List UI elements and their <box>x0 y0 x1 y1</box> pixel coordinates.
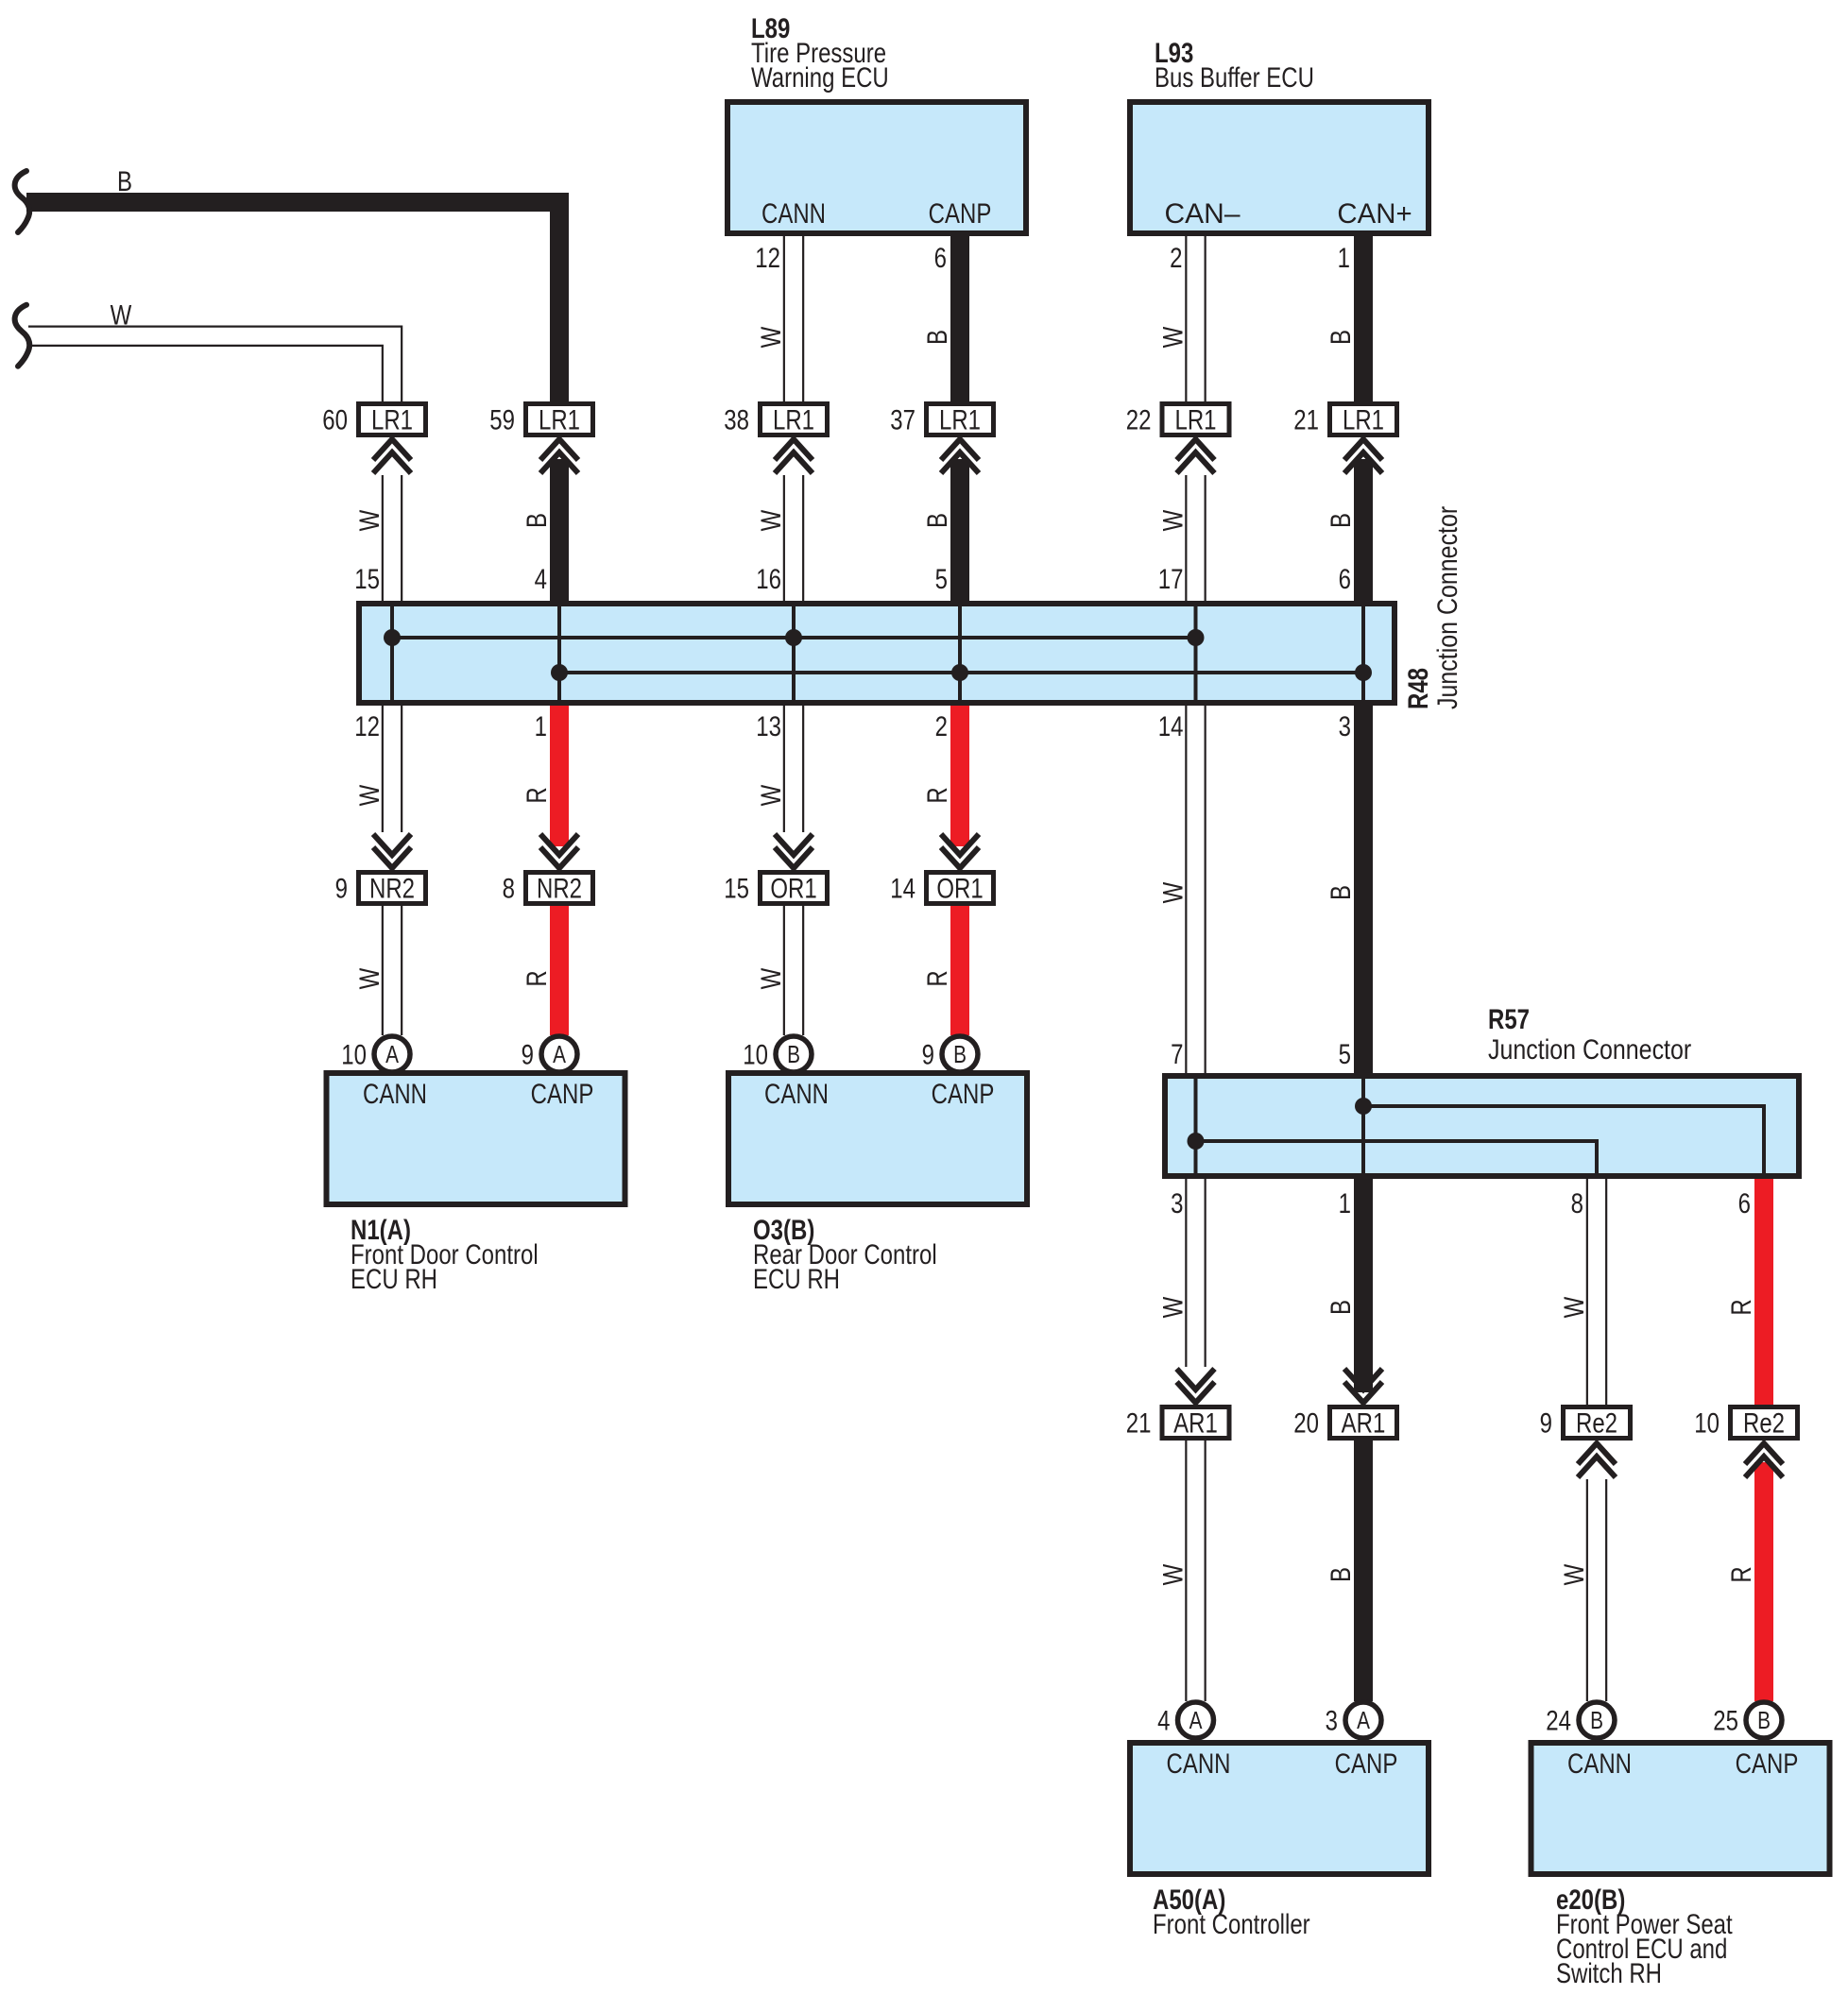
wire W horizontal pair with corner down to LR1 pin 60 <box>28 327 402 402</box>
svg-text:A: A <box>1357 1707 1370 1734</box>
svg-text:Junction Connector: Junction Connector <box>1430 506 1463 709</box>
svg-text:AR1: AR1 <box>1173 1407 1218 1439</box>
wire B from LR1 to R48 at x=592 <box>550 459 569 605</box>
wire W from OR1 15 to O3 pin 10 <box>783 906 785 1035</box>
svg-text:B: B <box>1324 330 1356 345</box>
wire B from L93 pin 1 to LR1 21 <box>1354 233 1373 402</box>
svg-text:B: B <box>787 1041 800 1068</box>
svg-text:10: 10 <box>743 1038 768 1070</box>
svg-text:W: W <box>1156 326 1189 348</box>
svg-text:21: 21 <box>1293 403 1319 435</box>
wire R from OR1 14 to O3 pin 9 <box>950 906 969 1035</box>
chevron arrows below LR1 60 <box>373 439 411 473</box>
wire B from R48 pin 3 to R57 pin 5 <box>1354 706 1373 1079</box>
junction connector R48 box <box>359 604 1395 703</box>
svg-text:A: A <box>385 1041 399 1068</box>
svg-text:B: B <box>520 513 552 528</box>
svg-text:CANN: CANN <box>363 1077 427 1109</box>
svg-text:37: 37 <box>890 403 915 435</box>
chevron arrows below LR1 37 <box>941 439 979 473</box>
wire B from R57 pin 1 to AR1 20 <box>1354 1179 1373 1392</box>
svg-text:21: 21 <box>1126 1407 1152 1439</box>
svg-text:8: 8 <box>503 872 515 904</box>
svg-text:CAN–: CAN– <box>1165 196 1241 229</box>
svg-text:W: W <box>1557 1563 1589 1585</box>
wire B from AR1 20 to A50 pin 3 <box>1354 1441 1373 1701</box>
svg-text:LR1: LR1 <box>939 403 981 435</box>
svg-text:5: 5 <box>935 562 948 594</box>
svg-text:12: 12 <box>755 241 780 273</box>
svg-text:1: 1 <box>1338 241 1350 273</box>
break symbol on wire W <box>15 305 30 367</box>
ECU N1 Front Door Control ECU RH box <box>327 1073 625 1204</box>
svg-text:R: R <box>920 970 952 986</box>
svg-text:R: R <box>920 787 952 803</box>
svg-text:13: 13 <box>756 709 781 742</box>
svg-text:B: B <box>920 513 952 528</box>
R48 internal pin-through line x=840 <box>792 606 796 700</box>
wire W from R48 pin 14 to R57 pin 7 <box>1185 704 1187 1075</box>
svg-text:15: 15 <box>724 872 749 904</box>
junction dot R48 CANP x=592 <box>551 664 568 681</box>
pin circle B pin 10 of O3 <box>776 1036 812 1072</box>
wire W from LR1 to R48 at x=415 <box>382 475 384 603</box>
wire R from R48 pin 1 to NR2 8 <box>550 706 569 846</box>
wire R from R48 pin 2 to OR1 14 <box>950 706 969 846</box>
ECU L93 Bus Buffer ECU box <box>1130 102 1429 233</box>
pin circle A pin 4 of A50 <box>1178 1702 1214 1738</box>
svg-text:W: W <box>1156 1563 1189 1585</box>
junction connector R57 box <box>1165 1076 1799 1176</box>
ECU L89 Tire Pressure Warning ECU box <box>727 102 1026 233</box>
svg-text:R: R <box>1724 1299 1756 1315</box>
svg-text:10: 10 <box>1694 1407 1720 1439</box>
break symbol on wire B <box>15 171 30 232</box>
svg-text:1: 1 <box>1339 1186 1351 1219</box>
wire W from R57 pin 3 to AR1 21 <box>1185 1177 1187 1367</box>
ECU O3 Rear Door Control ECU RH box <box>728 1073 1027 1204</box>
wire W from R48 pin 12 to NR2 9 <box>382 704 384 832</box>
svg-text:38: 38 <box>724 403 749 435</box>
svg-text:W: W <box>1156 881 1189 903</box>
pin circle B pin 9 of O3 <box>942 1036 978 1072</box>
svg-text:OR1: OR1 <box>936 872 983 904</box>
svg-text:CANP: CANP <box>531 1077 594 1109</box>
svg-text:B: B <box>1324 885 1356 900</box>
svg-text:W: W <box>754 326 786 348</box>
chevron arrows above AR1 21 <box>1177 1369 1215 1403</box>
R48 internal CANP bus line <box>559 671 1363 674</box>
junction dot R48 CANN x=1265.5 <box>1188 629 1205 646</box>
svg-text:B: B <box>117 164 132 196</box>
svg-text:W: W <box>352 509 385 531</box>
svg-text:ECU RH: ECU RH <box>351 1262 437 1294</box>
ECU e20 Front Power Seat Control ECU and Switch RH box <box>1531 1743 1830 1874</box>
svg-text:15: 15 <box>354 562 380 594</box>
svg-text:NR2: NR2 <box>537 872 582 904</box>
svg-text:R48: R48 <box>1401 668 1433 709</box>
wire W from LR1 to R48 at x=840 <box>783 475 785 603</box>
svg-text:B: B <box>1324 1300 1356 1315</box>
junction dot R48 CANN x=840 <box>785 629 802 646</box>
svg-text:CANN: CANN <box>1567 1747 1632 1779</box>
svg-text:R: R <box>520 787 552 803</box>
svg-text:9: 9 <box>922 1038 934 1070</box>
wire B (battery bus) horizontal with corner down to LR1 pin 59 <box>26 202 559 402</box>
connector LR1 pin 38 box <box>761 404 828 435</box>
chevron arrows below LR1 21 <box>1344 439 1382 473</box>
wire W from L89 pin 12 to LR1 38 <box>783 233 785 402</box>
R57 internal CANP link to pin 6 <box>1363 1106 1764 1175</box>
connector LR1 pin 59 box <box>526 404 593 435</box>
svg-text:3: 3 <box>1326 1704 1338 1736</box>
svg-text:6: 6 <box>1339 562 1351 594</box>
svg-text:W: W <box>1156 509 1189 531</box>
junction dot R48 CANP x=1016 <box>951 664 968 681</box>
R48 internal pin-through line x=592 <box>557 606 561 700</box>
svg-text:3: 3 <box>1339 709 1351 742</box>
pin circle A pin 9 of N1 <box>541 1036 577 1072</box>
svg-text:59: 59 <box>489 403 515 435</box>
junction dot R57 CANP <box>1355 1098 1372 1115</box>
wire W from R48 pin 13 to OR1 15 <box>783 704 785 832</box>
pin circle B pin 24 of e20 <box>1579 1702 1615 1738</box>
wire B from L89 pin 6 to LR1 37 <box>950 233 969 402</box>
svg-text:9: 9 <box>335 872 348 904</box>
R48 internal pin-through line x=415 <box>390 606 394 700</box>
svg-text:R: R <box>1724 1566 1756 1582</box>
svg-text:LR1: LR1 <box>371 403 413 435</box>
connector LR1 pin 21 box <box>1330 404 1397 435</box>
wire W from NR2 9 to N1 pin 10 <box>382 906 384 1035</box>
connector AR1 pin 21 box <box>1162 1407 1229 1439</box>
R48 internal pin-through line x=1016 <box>958 606 962 700</box>
svg-text:4: 4 <box>535 562 547 594</box>
svg-text:CANN: CANN <box>764 1077 829 1109</box>
chevron arrows below LR1 59 <box>540 439 578 473</box>
svg-text:W: W <box>352 967 385 989</box>
svg-text:W: W <box>1156 1296 1189 1318</box>
connector NR2 pin 9 box <box>359 873 426 904</box>
svg-text:3: 3 <box>1171 1186 1183 1219</box>
svg-text:6: 6 <box>934 241 947 273</box>
svg-text:10: 10 <box>341 1038 367 1070</box>
svg-text:60: 60 <box>322 403 348 435</box>
R48 internal pin-through line x=1265.5 <box>1194 606 1198 700</box>
junction dot R48 CANN x=415 <box>384 629 401 646</box>
wire R from NR2 8 to N1 pin 9 <box>550 906 569 1035</box>
chevron arrows above AR1 20 <box>1344 1369 1382 1403</box>
svg-text:Warning ECU: Warning ECU <box>751 60 889 93</box>
pin circle B pin 25 of e20 <box>1746 1702 1782 1738</box>
svg-text:9: 9 <box>522 1038 534 1070</box>
svg-text:B: B <box>920 330 952 345</box>
R57 internal pin line x=c5 <box>1194 1079 1198 1173</box>
svg-text:W: W <box>1557 1296 1589 1318</box>
svg-text:22: 22 <box>1126 403 1152 435</box>
pin circle A pin 3 of A50 <box>1345 1702 1381 1738</box>
svg-text:B: B <box>1324 1567 1356 1582</box>
wire W from Re2 9 to e20 pin 24 <box>1586 1479 1588 1701</box>
wire W from R57 pin 8 to Re2 9 <box>1586 1177 1588 1405</box>
svg-text:14: 14 <box>890 872 915 904</box>
svg-text:AR1: AR1 <box>1342 1407 1386 1439</box>
svg-text:W: W <box>754 784 786 806</box>
wire W from AR1 21 to A50 pin 4 <box>1185 1441 1187 1701</box>
wire W from LR1 to R48 at x=1265.5 <box>1185 475 1187 603</box>
svg-text:CANP: CANP <box>929 196 992 229</box>
svg-text:6: 6 <box>1738 1186 1751 1219</box>
svg-text:W: W <box>754 967 786 989</box>
svg-text:LR1: LR1 <box>1343 403 1384 435</box>
svg-text:14: 14 <box>1158 709 1184 742</box>
svg-text:4: 4 <box>1157 1704 1170 1736</box>
R48 internal CANN bus line <box>392 636 1196 639</box>
R57 internal CANN link to pin 8 <box>1196 1141 1598 1175</box>
wire B from LR1 to R48 at x=1016 <box>950 459 969 605</box>
connector LR1 pin 60 box <box>359 404 426 435</box>
svg-text:B: B <box>1590 1707 1603 1734</box>
connector Re2 pin 10 box <box>1731 1407 1798 1439</box>
svg-text:24: 24 <box>1546 1704 1571 1736</box>
wire R from Re2 10 to e20 pin 25 <box>1754 1462 1773 1701</box>
svg-text:LR1: LR1 <box>773 403 814 435</box>
svg-text:CANP: CANP <box>932 1077 995 1109</box>
svg-text:W: W <box>352 784 385 806</box>
svg-text:1: 1 <box>535 709 547 742</box>
svg-text:9: 9 <box>1540 1407 1552 1439</box>
chevron arrows above OR1 15 <box>775 834 813 868</box>
chevron arrows above OR1 14 <box>941 834 979 868</box>
svg-text:7: 7 <box>1171 1037 1183 1069</box>
connector OR1 pin 14 box <box>927 873 994 904</box>
connector OR1 pin 15 box <box>761 873 828 904</box>
chevron arrows above NR2 9 <box>373 834 411 868</box>
wire R from R57 pin 6 to Re2 10 <box>1754 1179 1773 1405</box>
svg-text:NR2: NR2 <box>369 872 415 904</box>
chevron arrows below LR1 38 <box>775 439 813 473</box>
svg-text:17: 17 <box>1158 562 1184 594</box>
svg-text:ECU RH: ECU RH <box>753 1262 840 1294</box>
wire B from LR1 to R48 at x=1443 <box>1354 459 1373 605</box>
svg-text:LR1: LR1 <box>1174 403 1216 435</box>
svg-text:Re2: Re2 <box>1743 1407 1785 1439</box>
pin circle A pin 10 of N1 <box>374 1036 410 1072</box>
svg-text:B: B <box>953 1041 967 1068</box>
chevron arrows below Re2 10 <box>1745 1443 1783 1477</box>
connector LR1 pin 22 box <box>1162 404 1229 435</box>
svg-text:CANP: CANP <box>1335 1747 1398 1779</box>
svg-text:A: A <box>553 1041 566 1068</box>
chevron arrows below LR1 22 <box>1177 439 1215 473</box>
svg-text:2: 2 <box>1170 241 1182 273</box>
svg-text:CANN: CANN <box>761 196 826 229</box>
svg-text:OR1: OR1 <box>770 872 816 904</box>
svg-text:B: B <box>1757 1707 1771 1734</box>
connector NR2 pin 8 box <box>526 873 593 904</box>
chevron arrows above NR2 8 <box>540 834 578 868</box>
svg-text:CAN+: CAN+ <box>1337 196 1412 229</box>
svg-text:2: 2 <box>935 709 948 742</box>
svg-text:Junction Connector: Junction Connector <box>1488 1032 1691 1065</box>
svg-text:5: 5 <box>1339 1037 1351 1069</box>
svg-text:Re2: Re2 <box>1576 1407 1617 1439</box>
R57 internal pin line x=c6 <box>1361 1079 1365 1173</box>
svg-text:A: A <box>1189 1707 1203 1734</box>
svg-text:25: 25 <box>1713 1704 1738 1736</box>
chevron arrows below Re2 9 <box>1578 1443 1616 1477</box>
svg-text:Switch RH: Switch RH <box>1556 1956 1662 1988</box>
connector Re2 pin 9 box <box>1564 1407 1631 1439</box>
svg-text:12: 12 <box>354 709 380 742</box>
svg-text:W: W <box>111 298 132 331</box>
svg-text:R57: R57 <box>1488 1002 1530 1034</box>
svg-text:B: B <box>1324 513 1356 528</box>
junction dot R48 CANP x=1443 <box>1355 664 1372 681</box>
svg-text:CANN: CANN <box>1167 1747 1231 1779</box>
junction dot R57 CANN <box>1188 1133 1205 1150</box>
svg-text:CANP: CANP <box>1736 1747 1799 1779</box>
svg-text:W: W <box>754 509 786 531</box>
svg-text:20: 20 <box>1293 1407 1319 1439</box>
R48 internal pin-through line x=1443 <box>1361 606 1365 700</box>
wire W from L93 pin 2 to LR1 22 <box>1185 233 1187 402</box>
svg-text:R: R <box>520 970 552 986</box>
ECU A50 Front Controller box <box>1130 1743 1429 1874</box>
connector LR1 pin 37 box <box>927 404 994 435</box>
svg-text:Front Controller: Front Controller <box>1153 1907 1310 1939</box>
svg-text:8: 8 <box>1571 1186 1583 1219</box>
svg-text:16: 16 <box>756 562 781 594</box>
svg-text:LR1: LR1 <box>539 403 580 435</box>
connector AR1 pin 20 box <box>1330 1407 1397 1439</box>
svg-text:Bus Buffer ECU: Bus Buffer ECU <box>1155 60 1314 93</box>
